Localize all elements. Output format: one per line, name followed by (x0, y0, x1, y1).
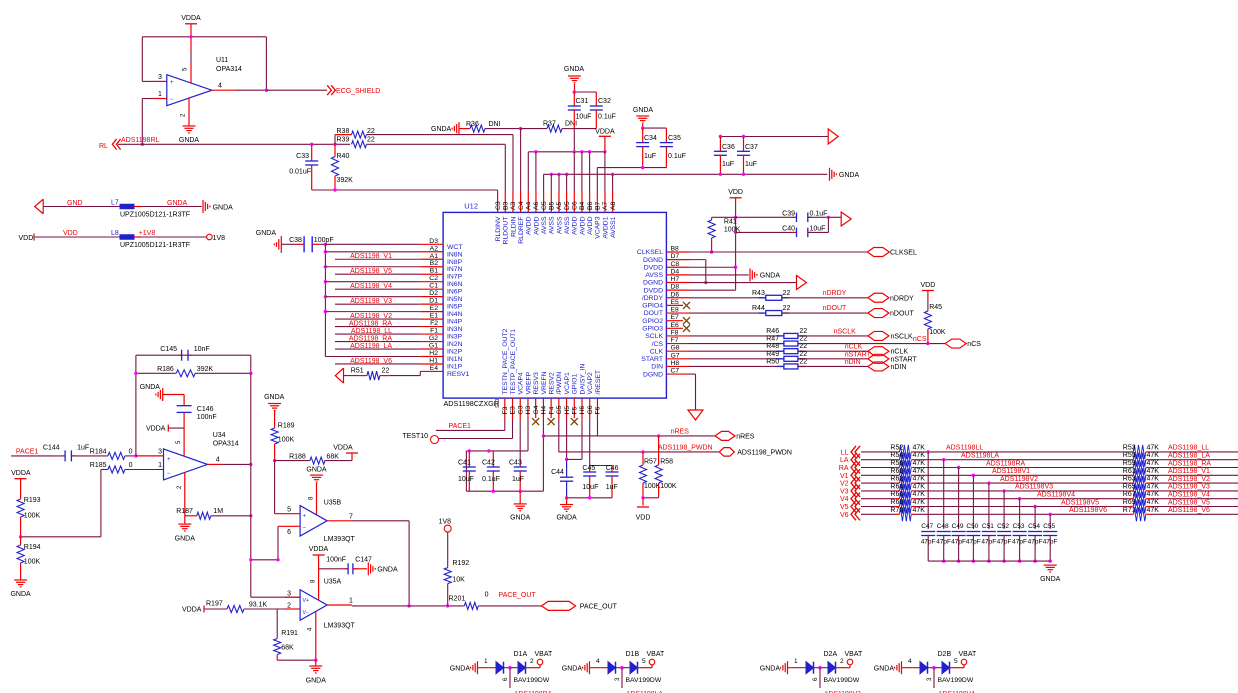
svg-text:ADS1198_V3: ADS1198_V3 (1168, 484, 1210, 491)
wire AVSS pin C5 riser (543, 174, 545, 191)
svg-text:E4: E4 (430, 365, 439, 372)
svg-text:nDRDY: nDRDY (823, 290, 847, 297)
ground arrow DGND (688, 410, 703, 420)
svg-text:TESTN_PACE_OUT2: TESTN_PACE_OUT2 (502, 328, 509, 394)
node AVSS D5 (565, 173, 568, 176)
pin B4 AVDD U12 top (581, 192, 583, 213)
resistor R58 100K (658, 436, 660, 465)
pin B3 RLDOUT U12 top (504, 192, 506, 213)
wire D1A center (504, 667, 519, 669)
svg-text:ADS1198_RA: ADS1198_RA (349, 320, 392, 327)
port oval nDIN (868, 362, 889, 371)
svg-text:VCAP3: VCAP3 (595, 216, 602, 239)
svg-text:R64: R64 (890, 483, 903, 490)
svg-text:47K: 47K (913, 452, 926, 459)
svg-text:R59: R59 (1123, 460, 1136, 467)
svg-text:10nF: 10nF (194, 346, 210, 353)
wire VREFN vertical (542, 420, 544, 491)
svg-text:100K: 100K (929, 329, 946, 336)
resistor R37 DNI (521, 128, 547, 130)
wire AVSS1 pin A8 riser (612, 174, 614, 191)
capacitor C46 1uF (611, 466, 613, 473)
svg-text:LL: LL (841, 449, 849, 456)
wire to VDD tap (642, 498, 644, 506)
svg-text:IN6P: IN6P (447, 289, 463, 296)
ground GNDA below U35A (309, 666, 322, 673)
svg-text:G6: G6 (587, 405, 594, 414)
svg-text:R62: R62 (890, 476, 903, 483)
svg-text:RLDINV: RLDINV (495, 216, 502, 241)
svg-text:ADS1198_LL: ADS1198_LL (351, 328, 392, 335)
resistor R64 47K (895, 490, 900, 492)
svg-text:47K: 47K (1147, 476, 1160, 483)
wire LA row left (861, 459, 895, 461)
wire ADS1198_LL to IN3P (335, 333, 420, 335)
diode D2A first BAV199DW (806, 662, 814, 674)
wire /RESET drop (597, 420, 599, 436)
svg-text:+1V8: +1V8 (139, 230, 156, 237)
svg-text:IN8N: IN8N (447, 251, 463, 258)
wire ADS1198_RA to IN2N (335, 341, 420, 343)
svg-text:+: + (167, 457, 171, 463)
resistor R40 392K (334, 144, 336, 156)
svg-text:ADS1198_V4: ADS1198_V4 (1168, 492, 1210, 499)
svg-text:R53: R53 (1123, 444, 1136, 451)
port arrow right C39 (841, 212, 851, 226)
svg-text:−: − (303, 526, 307, 532)
wire V4 row right (1151, 498, 1238, 500)
pin G2 IN2N U12 left (420, 341, 443, 343)
svg-text:R55: R55 (1123, 452, 1136, 459)
svg-text:C52: C52 (997, 523, 1009, 530)
wire U11 pin5 supply (190, 51, 192, 64)
wire C41/C42/C43 bottom rail (466, 490, 543, 492)
wire RA row right (1151, 467, 1238, 469)
wire ADS1198_V1 to IN8P (335, 258, 420, 260)
wire ADS1198_V6 to IN1P (335, 363, 420, 365)
svg-text:5: 5 (287, 507, 291, 514)
wire ADS1198_V2 to IN4P (335, 318, 420, 320)
svg-text:0.1uF: 0.1uF (482, 476, 500, 483)
wire R185 left down (101, 469, 108, 471)
svg-text:A5: A5 (556, 201, 563, 210)
ground GNDA below C43 (514, 504, 527, 511)
wire C39 right to arrow (808, 216, 841, 218)
wire DGND H7 row to arrow (689, 282, 797, 284)
node RL C33 junction (310, 143, 313, 146)
node VDD C39 row (734, 216, 737, 219)
svg-text:GNDA: GNDA (760, 666, 781, 673)
port oval nCS (945, 339, 966, 348)
wire DVDD D8 row to VDD vertical (689, 289, 736, 291)
wire V4 row left (861, 498, 895, 500)
wire C39 row (712, 216, 797, 218)
svg-text:R56: R56 (890, 460, 903, 467)
svg-text:AVSS: AVSS (541, 216, 548, 234)
wire rail to GNDA (519, 491, 521, 504)
svg-text:E1: E1 (430, 313, 439, 320)
node C48 tap (942, 458, 945, 461)
svg-text:10uF: 10uF (576, 114, 592, 121)
svg-text:E7: E7 (671, 314, 680, 321)
wire V3 row middle (916, 490, 1129, 492)
svg-text:V5: V5 (840, 504, 849, 511)
resistor R193 100K (17, 499, 24, 517)
svg-text:3: 3 (158, 74, 162, 81)
op-amp U35B LM393QT (300, 506, 327, 537)
svg-text:C38: C38 (289, 237, 302, 244)
node bus junction IN6N (324, 280, 327, 283)
resistor R52 47K (895, 451, 900, 453)
wire AVDD bus (528, 151, 605, 153)
svg-text:IN5P: IN5P (447, 304, 463, 311)
pin G3 VCAP4 U12 bottom (519, 398, 521, 420)
wire R37 to C31 rail (562, 128, 574, 130)
svg-text:C39: C39 (782, 210, 795, 217)
svg-text:A4: A4 (525, 201, 532, 210)
svg-text:R48: R48 (766, 343, 779, 350)
wire V2 row left (861, 482, 895, 484)
wire AVDD pin C6 riser (573, 152, 575, 192)
wire V5 row right (1151, 506, 1238, 508)
svg-text:IN6N: IN6N (447, 281, 463, 288)
svg-text:OPA314: OPA314 (216, 66, 242, 73)
svg-text:R50: R50 (766, 358, 779, 365)
pin G4 RESV3 U12 bottom (535, 398, 537, 418)
svg-text:1: 1 (158, 91, 162, 98)
resistor R184 0 (108, 452, 125, 459)
pin B8 CLKSEL U12 right (666, 251, 689, 253)
wire D2B center (928, 667, 943, 669)
node AVDD A6 (534, 150, 537, 153)
svg-text:R184: R184 (90, 448, 107, 455)
resistor R51 22 (344, 375, 359, 377)
wire R197 to pin2 (244, 608, 285, 610)
svg-text:GNDA: GNDA (450, 666, 471, 673)
svg-text:C54: C54 (1028, 523, 1040, 530)
node C31 top (573, 90, 576, 93)
svg-text:L8: L8 (111, 230, 119, 237)
svg-text:GNDA: GNDA (140, 384, 161, 391)
svg-text:0.1uF: 0.1uF (668, 153, 686, 160)
wire C36/C37 top rail to arrow (720, 136, 828, 138)
wire LA row middle (916, 459, 1129, 461)
svg-text:R37: R37 (543, 121, 556, 128)
svg-text:ADS1198_LA: ADS1198_LA (1168, 453, 1210, 460)
capacitor C52 47pF (1003, 491, 1005, 529)
wire VCAP3 rail to C34/C35 bottoms (597, 167, 666, 169)
svg-text:VREFN: VREFN (541, 371, 548, 394)
svg-text:ADS1198_PWDN: ADS1198_PWDN (658, 444, 713, 451)
pin D4 AVSS U12 right (666, 274, 689, 276)
wire WCT row (325, 243, 420, 245)
VDDA power symbol at AVDD bus (599, 135, 611, 137)
wire D1A center down (509, 668, 511, 688)
node nCS R45 junction (926, 342, 929, 345)
svg-text:LM393QT: LM393QT (324, 536, 356, 543)
svg-text:B2: B2 (430, 260, 439, 267)
wire DVDD C8 row to VDD vertical (689, 266, 736, 268)
svg-text:VBAT: VBAT (535, 651, 553, 658)
svg-text:0.1uF: 0.1uF (598, 114, 616, 121)
svg-text:C45: C45 (582, 465, 595, 472)
wire /CS row right (798, 343, 945, 345)
wire V5 row left (861, 506, 895, 508)
svg-text:nCS: nCS (967, 341, 981, 348)
wire ADS1198_RA to IN3N (335, 326, 420, 328)
port arrow right DGND (797, 276, 807, 290)
svg-text:47K: 47K (913, 460, 926, 467)
svg-text:E2: E2 (430, 305, 439, 312)
pin C7 DGND U12 right (666, 373, 689, 375)
svg-text:ADS1198_V1: ADS1198_V1 (350, 253, 392, 260)
svg-text:IN5N: IN5N (447, 296, 463, 303)
node U34 output (249, 463, 252, 466)
svg-text:START: START (641, 356, 663, 363)
wire C40 row (736, 231, 797, 233)
wire R186 right (195, 372, 251, 374)
svg-text:R68: R68 (890, 499, 903, 506)
wire R187 right (211, 515, 251, 517)
pin E7 GPIO2 U12 right (666, 320, 683, 322)
resistor R46 22 (777, 335, 784, 337)
capacitor C44 10uF (560, 476, 573, 478)
svg-text:H3: H3 (525, 406, 532, 415)
svg-text:GNDA: GNDA (10, 591, 31, 598)
svg-text:R52: R52 (890, 444, 903, 451)
svg-text:C42: C42 (482, 460, 495, 467)
svg-text:ADS1198_V6: ADS1198_V6 (350, 358, 392, 365)
port ECG_SHIELD (327, 85, 335, 95)
svg-text:R193: R193 (24, 497, 41, 504)
svg-text:ADS1198V2: ADS1198V2 (1000, 476, 1038, 483)
power pin VBAT at D2A (849, 665, 851, 668)
pin G8 CLK U12 right (666, 350, 689, 352)
wire C40 right (808, 231, 829, 233)
svg-text:C47: C47 (921, 523, 933, 530)
svg-text:R70: R70 (890, 507, 903, 514)
pin H8 DIN U12 right (666, 365, 689, 367)
svg-text:R71: R71 (1123, 507, 1136, 514)
svg-text:R51: R51 (351, 368, 364, 375)
svg-text:C147: C147 (355, 557, 372, 564)
pin E2 IN4N U12 left (420, 311, 443, 313)
node wired-OR junction (407, 604, 410, 607)
wire D2B cathode to VBAT (950, 667, 965, 669)
svg-text:D1A: D1A (514, 651, 528, 658)
svg-text:PACE_OUT: PACE_OUT (580, 603, 618, 610)
node C42 bottom (492, 490, 495, 493)
svg-text:G4: G4 (533, 405, 540, 414)
node RLDREF junction (519, 127, 522, 130)
svg-text:U12: U12 (464, 202, 478, 211)
pin H4 VREFN U12 bottom (542, 398, 544, 420)
svg-text:UPZ1005D121-1R3TF: UPZ1005D121-1R3TF (120, 242, 190, 249)
svg-text:G7: G7 (671, 352, 680, 359)
svg-text:R63: R63 (1123, 476, 1136, 483)
pin A1 IN8P U12 left (420, 258, 443, 260)
svg-text:E5: E5 (671, 299, 680, 306)
ground GNDA below U11 (183, 126, 196, 133)
svg-text:ADS1198LA: ADS1198LA (961, 453, 999, 460)
pin E1 IN4P U12 left (420, 318, 443, 320)
node U11 output junction (265, 89, 268, 92)
pin A5 AVSS U12 top (558, 192, 560, 213)
svg-text:GPIO3: GPIO3 (642, 326, 663, 333)
svg-text:GNDA: GNDA (175, 536, 196, 543)
svg-text:GNDA: GNDA (306, 467, 327, 474)
svg-text:R47: R47 (766, 336, 779, 343)
svg-text:ADS1198_V5: ADS1198_V5 (350, 268, 392, 275)
svg-text:R194: R194 (24, 544, 41, 551)
svg-text:5: 5 (642, 658, 646, 665)
wire C45/C46 top rail (590, 465, 612, 467)
capacitor C48 47pF (943, 460, 945, 529)
pin E4 RESV1 U12 left (420, 370, 443, 372)
svg-text:3: 3 (158, 448, 162, 455)
svg-text:/RESET: /RESET (595, 370, 602, 395)
svg-text:RLDIN: RLDIN (510, 216, 517, 236)
svg-text:C8: C8 (671, 261, 680, 268)
svg-text:TEST10: TEST10 (402, 433, 428, 440)
svg-text:R201: R201 (449, 596, 466, 603)
svg-text:22: 22 (783, 290, 791, 297)
node C49 gnd rail (957, 559, 960, 562)
wire R188 to VDDA tap (325, 460, 352, 462)
svg-text:GNDA: GNDA (839, 172, 860, 179)
wire ADS1198_V5 to IN7P (335, 273, 420, 275)
node bus junction IN7N (324, 265, 327, 268)
svg-text:CLKSEL: CLKSEL (890, 250, 917, 257)
wire V2 row right (1151, 482, 1238, 484)
svg-text:0.1uF: 0.1uF (810, 210, 828, 217)
svg-text:IN4P: IN4P (447, 319, 463, 326)
svg-text:R58: R58 (660, 459, 673, 466)
capacitor C45 10uF (589, 466, 591, 473)
resistor R48 22 (777, 350, 784, 352)
svg-text:C4: C4 (518, 201, 525, 210)
wire pin5 U34 (183, 428, 185, 456)
op-amp U35A LM393QT (300, 590, 327, 621)
wire U11 feedback left vertical to pin 3 (141, 37, 143, 82)
wire IN8N row (325, 251, 420, 253)
svg-text:RESV2: RESV2 (549, 372, 556, 395)
wire IN7N row (325, 266, 420, 268)
wire V5 row middle (916, 506, 1129, 508)
wire pin2 down to R191 (276, 609, 278, 639)
svg-text:ADS1198CZXGR: ADS1198CZXGR (444, 399, 499, 408)
svg-text:R185: R185 (90, 462, 107, 469)
node VDD C40 row (734, 231, 737, 234)
svg-text:nCLK: nCLK (845, 344, 863, 351)
svg-text:D6: D6 (671, 291, 680, 298)
node bus junction IN5N (324, 295, 327, 298)
svg-text:47K: 47K (1147, 468, 1160, 475)
svg-text:C51: C51 (982, 523, 994, 530)
wire LL row middle (916, 451, 1129, 453)
port GND triangle (L7) (35, 199, 44, 214)
wire V6 row right (1151, 513, 1238, 515)
node R57 VDD junction (641, 496, 644, 499)
pin A7 AVDD1 U12 top (604, 192, 606, 213)
svg-text:1uF: 1uF (745, 161, 757, 168)
capacitor C42 0.1uF (492, 451, 494, 467)
wire WCT bus vertical (324, 244, 326, 356)
svg-text:0: 0 (129, 462, 133, 469)
node C51 gnd rail (987, 559, 990, 562)
svg-text:IN3P: IN3P (447, 334, 463, 341)
resistor R197 93.1K (204, 608, 227, 610)
wire pin8 U35B (316, 483, 318, 515)
wire V4 row middle (916, 498, 1129, 500)
svg-text:−: − (167, 471, 171, 477)
svg-text:C50: C50 (966, 523, 978, 530)
wire pin3 red (136, 455, 164, 457)
svg-text:GNDA: GNDA (874, 666, 895, 673)
pin F7 /CS U12 right (666, 343, 689, 345)
wire L8 right (134, 236, 141, 238)
wire V6 row left (861, 513, 895, 515)
capacitor C36 1uF (719, 137, 721, 152)
resistor R65 47K (1129, 490, 1134, 492)
node R186 left (134, 372, 137, 375)
svg-text:AVSS: AVSS (549, 216, 556, 234)
svg-text:22: 22 (799, 343, 807, 350)
pin 3 U11 (142, 80, 154, 82)
node D2A center (818, 666, 821, 669)
svg-text:R36: R36 (466, 121, 479, 128)
svg-text:VDD: VDD (728, 189, 743, 196)
no-connect X on GPIO4 (683, 302, 690, 309)
diode D2A second BAV199DW (828, 662, 836, 674)
wire C31 rail to AVDD bus (573, 129, 575, 152)
svg-text:C34: C34 (644, 135, 657, 142)
svg-text:VDD: VDD (63, 230, 78, 237)
node AVDD A7 VDDA (603, 150, 606, 153)
svg-text:VDD: VDD (921, 282, 936, 289)
node C45 bottom (588, 496, 591, 499)
resistor R36 DNI (459, 128, 470, 130)
power pin 1V8 circle (207, 234, 213, 240)
no-connect X on GPIO1 (571, 418, 578, 425)
svg-text:7: 7 (349, 513, 353, 520)
node C53 tap (1018, 497, 1021, 500)
svg-text:DGND: DGND (643, 257, 663, 264)
node signal junction pin6 (249, 558, 252, 561)
wire D1A cathode to VBAT (526, 667, 541, 669)
pin H3 VREFP U12 bottom (527, 398, 529, 420)
svg-text:0.01uF: 0.01uF (289, 169, 311, 176)
resistor R189 100K (274, 411, 276, 428)
pin 2 U11 ground lead (188, 98, 190, 126)
svg-text:VDDA: VDDA (333, 445, 353, 452)
capacitor C40 10uF (793, 231, 797, 233)
node AVDD B4 (580, 150, 583, 153)
pin D5 AVSS U12 top (566, 192, 568, 213)
resistor R60 47K (895, 474, 900, 476)
svg-text:GNDA: GNDA (760, 272, 781, 279)
wire U34 output vertical (250, 373, 252, 597)
pin G7 START U12 right (666, 358, 689, 360)
svg-text:VCAP4: VCAP4 (518, 372, 525, 395)
wire DGND C7 down (689, 373, 696, 375)
wire R57/R58 bottoms (643, 497, 659, 499)
svg-text:UPZ1005D121-1R3TF: UPZ1005D121-1R3TF (120, 212, 190, 219)
wire output corner to U35A pin3 (251, 596, 300, 598)
svg-text:GNDA: GNDA (562, 666, 583, 673)
svg-text:nDIN: nDIN (845, 359, 861, 366)
pin D1 IN5P U12 left (420, 303, 443, 305)
